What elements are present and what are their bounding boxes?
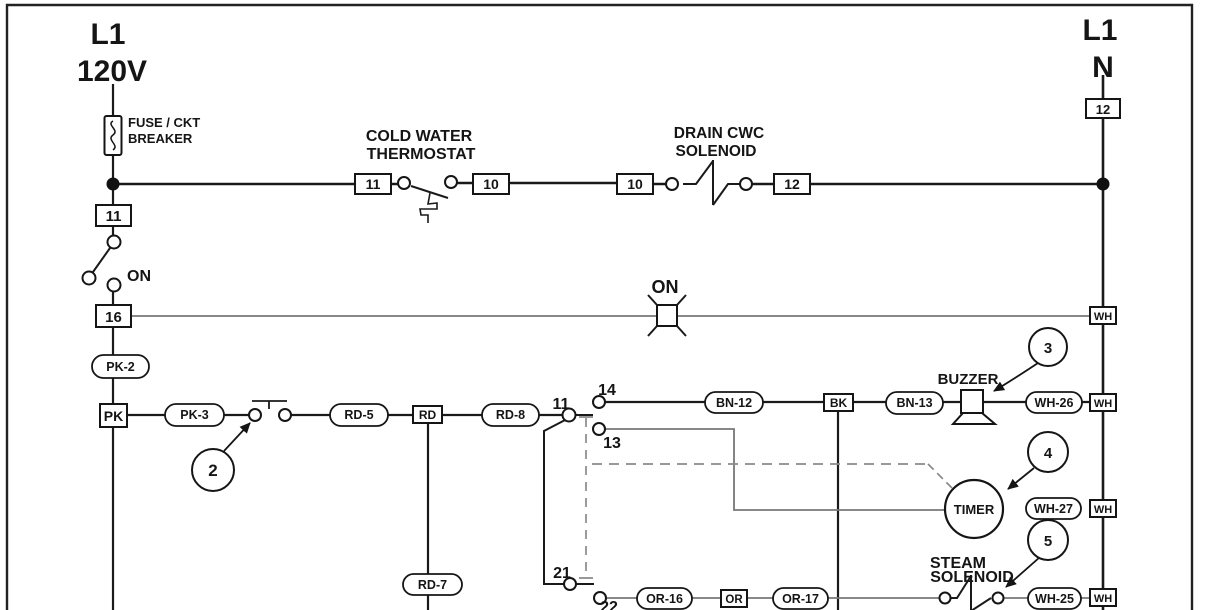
svg-text:DRAIN CWC: DRAIN CWC	[674, 125, 764, 142]
svg-text:BK: BK	[830, 396, 848, 410]
svg-text:11: 11	[366, 176, 381, 192]
svg-text:12: 12	[784, 176, 800, 192]
svg-text:SOLENOID: SOLENOID	[930, 569, 1014, 586]
svg-text:WH-26: WH-26	[1035, 396, 1074, 410]
svg-text:ON: ON	[652, 277, 679, 297]
svg-text:11: 11	[553, 396, 570, 413]
svg-text:THERMOSTAT: THERMOSTAT	[367, 146, 476, 163]
svg-text:14: 14	[598, 382, 616, 399]
svg-text:ON: ON	[127, 268, 151, 285]
svg-text:3: 3	[1044, 340, 1052, 357]
svg-text:BUZZER: BUZZER	[938, 371, 999, 388]
svg-text:RD-7: RD-7	[418, 578, 447, 592]
svg-text:BN-13: BN-13	[896, 396, 932, 410]
svg-text:WH-27: WH-27	[1034, 502, 1073, 516]
svg-text:13: 13	[603, 435, 621, 452]
svg-text:WH: WH	[1094, 398, 1112, 410]
svg-text:OR: OR	[725, 594, 743, 606]
svg-text:RD-5: RD-5	[344, 408, 373, 422]
svg-text:PK-2: PK-2	[106, 360, 135, 374]
svg-text:120V: 120V	[77, 55, 147, 88]
svg-text:5: 5	[1044, 533, 1052, 550]
svg-text:12: 12	[1096, 102, 1110, 117]
svg-text:21: 21	[553, 565, 571, 582]
svg-text:4: 4	[1044, 445, 1053, 462]
svg-text:BN-12: BN-12	[716, 396, 752, 410]
svg-text:WH-25: WH-25	[1035, 592, 1074, 606]
svg-text:OR-17: OR-17	[782, 592, 819, 606]
svg-text:N: N	[1092, 51, 1114, 84]
svg-text:WH: WH	[1094, 593, 1112, 605]
svg-text:SOLENOID: SOLENOID	[676, 143, 757, 160]
svg-text:OR-16: OR-16	[646, 592, 683, 606]
svg-text:PK: PK	[104, 408, 123, 424]
svg-text:RD: RD	[419, 408, 437, 422]
svg-text:16: 16	[105, 309, 122, 326]
svg-text:22: 22	[600, 599, 618, 610]
svg-text:COLD WATER: COLD WATER	[366, 128, 473, 145]
svg-text:RD-8: RD-8	[496, 408, 525, 422]
svg-text:L1: L1	[1082, 14, 1117, 47]
svg-text:10: 10	[483, 176, 499, 192]
svg-text:FUSE / CKT: FUSE / CKT	[128, 115, 200, 130]
svg-text:WH: WH	[1094, 311, 1112, 323]
svg-text:WH: WH	[1094, 504, 1112, 516]
svg-text:L1: L1	[90, 18, 125, 51]
svg-text:TIMER: TIMER	[954, 502, 995, 517]
svg-text:2: 2	[208, 461, 217, 480]
svg-text:11: 11	[106, 208, 122, 225]
svg-text:PK-3: PK-3	[180, 408, 209, 422]
svg-text:10: 10	[627, 176, 643, 192]
svg-text:BREAKER: BREAKER	[128, 131, 193, 146]
